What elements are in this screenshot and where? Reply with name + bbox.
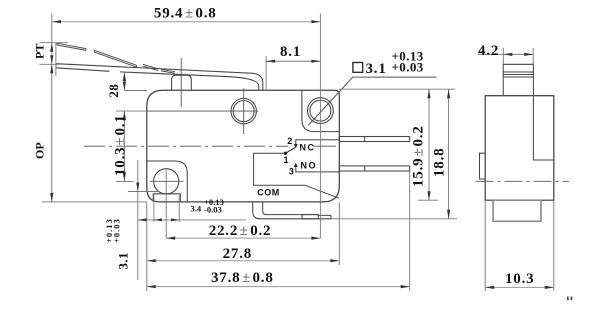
svg-text:15.9±0.2: 15.9±0.2 bbox=[410, 125, 426, 187]
dim OP bbox=[33, 64, 147, 202]
svg-text:28: 28 bbox=[106, 84, 121, 98]
svg-text:59.4±0.8: 59.4±0.8 bbox=[154, 6, 217, 22]
svg-text:10.3±0.1: 10.3±0.1 bbox=[113, 114, 129, 176]
switch body outline bbox=[147, 90, 339, 202]
dim 2.8 (lever to body top) bbox=[106, 72, 147, 98]
dim 27.8 bbox=[147, 202, 339, 291]
dim 3.1 +0.13/+0.03 (bottom left, vertical) bbox=[104, 160, 165, 280]
side view body bbox=[485, 96, 554, 201]
hinge hole horizontal centerline bbox=[150, 180, 184, 182]
COM terminal slot bbox=[302, 215, 318, 219]
centerline continuation right of NC bbox=[314, 145, 337, 147]
plunger centerline bbox=[180, 58, 182, 107]
side view centerline bbox=[476, 180, 570, 182]
lever dashed (free position) strips bbox=[57, 43, 86, 50]
lever solid (operating position) top edge with hook bbox=[56, 64, 263, 91]
svg-text:3: 3 bbox=[289, 166, 294, 176]
NO wire to terminal bbox=[296, 167, 340, 172]
COM wire bbox=[254, 153, 339, 198]
svg-text:3.1: 3.1 bbox=[366, 61, 387, 77]
svg-text:8.1: 8.1 bbox=[280, 44, 301, 60]
main dash-dot centerline bbox=[84, 145, 288, 147]
NC terminal tab bbox=[339, 137, 409, 142]
NC wire to terminal bbox=[296, 140, 340, 145]
dim PT bbox=[33, 43, 68, 65]
right hole center extension (59.4 / 8.1 / 22.2) bbox=[319, 14, 321, 239]
NO terminal tab bbox=[339, 166, 409, 171]
svg-text:22.2±0.2: 22.2±0.2 bbox=[209, 223, 272, 239]
dim 15.9±0.2 bbox=[339, 89, 455, 200]
stray tick marks bottom right bbox=[567, 297, 569, 301]
svg-text:COM: COM bbox=[257, 187, 280, 197]
svg-text:OP: OP bbox=[33, 142, 47, 159]
top-middle hole bbox=[231, 98, 256, 123]
svg-text:37.8±0.8: 37.8±0.8 bbox=[211, 270, 274, 286]
svg-text:NC: NC bbox=[300, 142, 316, 152]
label square 3.1 +0.13/+0.03 bbox=[353, 49, 424, 77]
dim 4.2 (side view plunger) bbox=[478, 43, 533, 64]
square pocket below hinge hole bbox=[153, 194, 180, 202]
dim 59.4±0.8 bbox=[52, 6, 320, 24]
plunger (front view) bbox=[172, 75, 192, 90]
side view plunger bbox=[503, 64, 533, 95]
COM bottom terminal inner edge bbox=[263, 202, 331, 219]
side view bottom terminal bbox=[493, 200, 541, 221]
top-middle hole vertical centerline bbox=[243, 88, 245, 134]
svg-text:+0.03: +0.03 bbox=[112, 218, 122, 243]
dim 18.8 bbox=[331, 89, 457, 219]
svg-text:+0.03: +0.03 bbox=[392, 60, 424, 75]
bottom-left hinge hole bbox=[154, 169, 179, 194]
dim 10.3±0.1 (hole centerlines) bbox=[113, 111, 147, 181]
dim 37.8±0.8 bbox=[147, 171, 410, 291]
NC fixed contact arrow bbox=[294, 144, 298, 148]
dim 22.2±0.2 bbox=[166, 223, 320, 240]
svg-text:-0.03: -0.03 bbox=[204, 205, 222, 215]
lever tip extension bbox=[55, 43, 57, 77]
dim 10.3 (side view width) bbox=[485, 201, 554, 292]
NO fixed contact arrow + stub bbox=[294, 163, 298, 167]
svg-text:27.8: 27.8 bbox=[223, 246, 252, 262]
svg-text:10.3: 10.3 bbox=[505, 271, 534, 287]
top-right hole slash leader to square-hole label bbox=[309, 77, 437, 125]
top holes horizontal centerline bbox=[147, 110, 258, 112]
moving arm bbox=[285, 148, 295, 154]
svg-text:1: 1 bbox=[284, 155, 289, 165]
hinge hole vertical centerline / 22.2 extension bbox=[165, 170, 167, 239]
svg-text:4.2: 4.2 bbox=[478, 43, 499, 59]
side view left tab bbox=[480, 153, 486, 179]
svg-text:18.8: 18.8 bbox=[431, 148, 447, 177]
svg-text:NO: NO bbox=[301, 161, 318, 171]
lever solid bottom edge piece 2 + inner hook bbox=[120, 72, 259, 90]
svg-text:2: 2 bbox=[287, 136, 292, 146]
dim 3.4 +0.13/-0.03 (hinge hole dia) bbox=[154, 195, 246, 222]
common pole dot bbox=[284, 152, 287, 155]
COM bottom terminal (L-bend) outer edge bbox=[253, 202, 331, 219]
plunger grooves bbox=[503, 71, 533, 73]
dim 8.1 bbox=[266, 44, 320, 90]
svg-text:3.1: 3.1 bbox=[116, 252, 131, 269]
top-right mounting pad bbox=[302, 90, 339, 131]
left long extension/dimension line (59.4 / PT / OP) bbox=[51, 14, 53, 203]
bottom-left foot boss bbox=[147, 161, 188, 202]
svg-text:PT: PT bbox=[33, 44, 47, 59]
lever solid bottom edge piece 1 bbox=[56, 64, 110, 72]
top-right hole bbox=[308, 98, 334, 124]
side view inner step bbox=[533, 96, 553, 160]
svg-text:3.4: 3.4 bbox=[191, 204, 202, 214]
